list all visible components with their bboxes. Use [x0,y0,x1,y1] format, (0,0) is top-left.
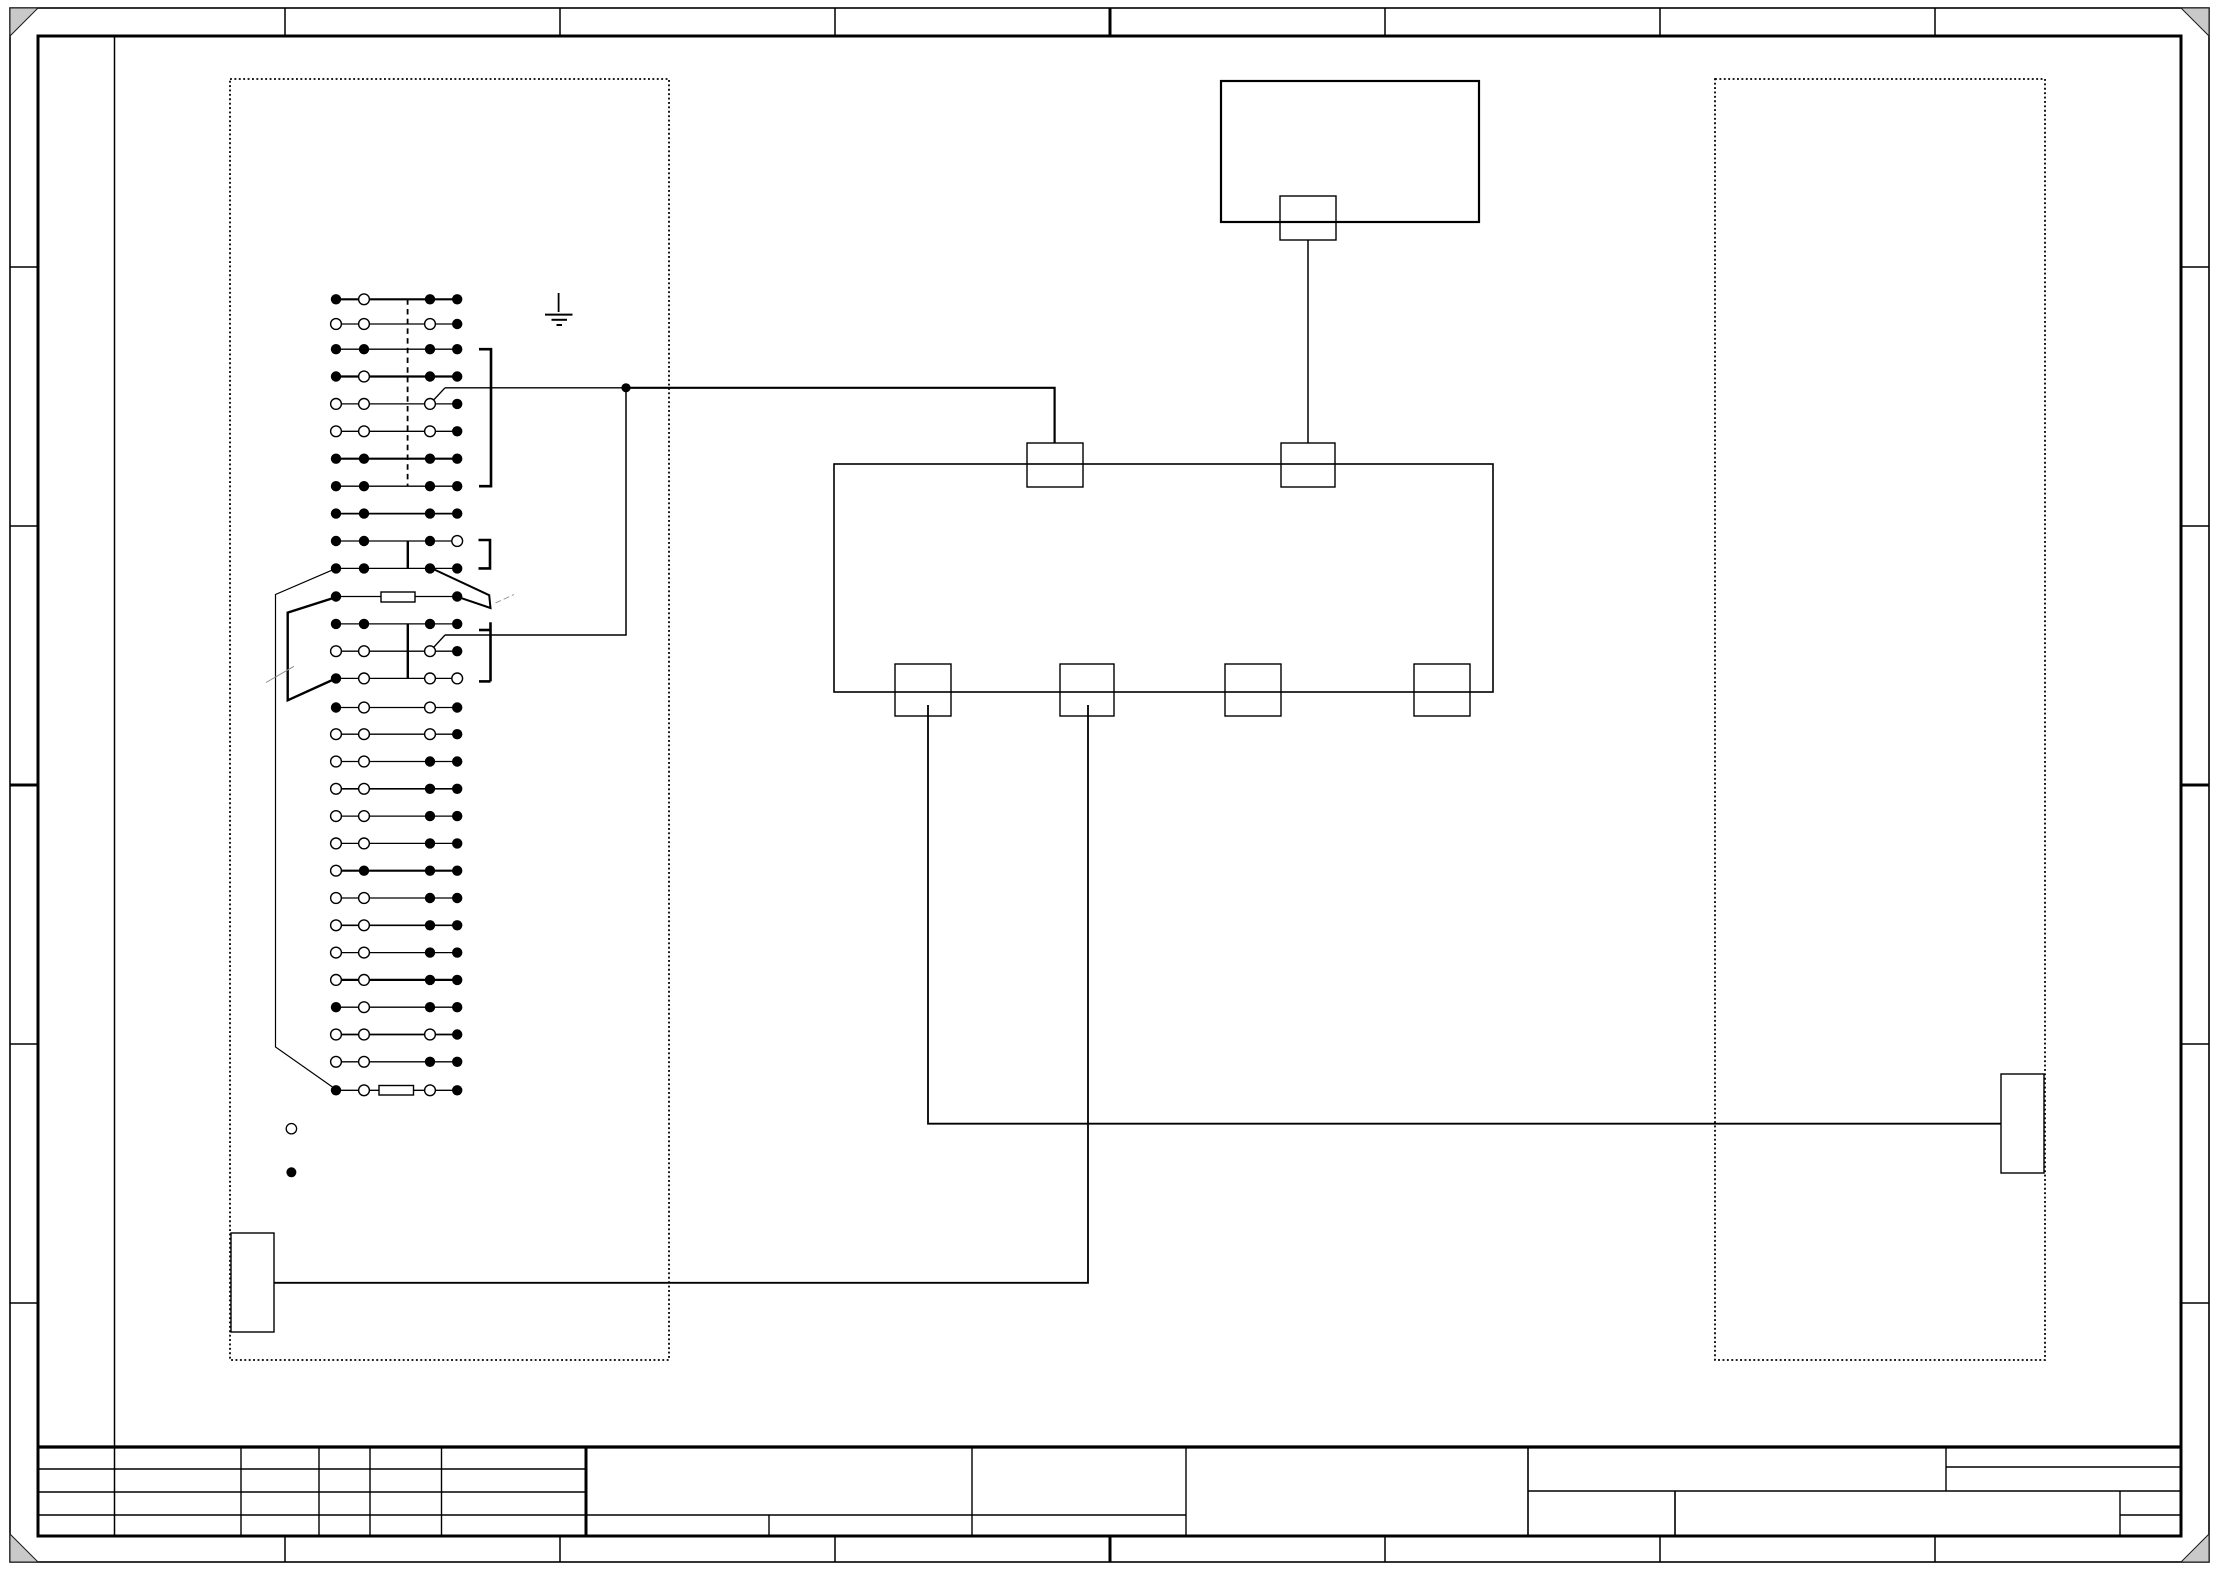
wire U2 to U1 [1307,240,1309,443]
title block column x=586 [585,1447,588,1536]
switch S1 arm [434,388,445,400]
wire connector X4 to X9 [274,705,1088,1283]
terminal row 9 [336,513,457,515]
terminal row 10 [336,540,457,542]
cable wing (right) [432,568,491,608]
terminal row 25 [336,952,457,954]
zone tick bottom x=285 [284,1536,286,1562]
wire node N1 to connector X1 [626,388,1055,443]
zone tick right y=1303 [2181,1302,2209,1304]
zone tick top x=835 [834,8,836,36]
title block column x=1528 [1527,1447,1529,1536]
title block bottom-row divider [768,1515,770,1536]
group bracket B1 [479,349,491,486]
switch S2 arm [434,635,445,647]
terminal row 1 [336,298,457,300]
title block row line 3 [38,1514,1186,1516]
corner mark bottom-right [2181,1534,2209,1562]
title block sheet row [2120,1514,2181,1516]
zone tick right y=1044 [2181,1043,2209,1045]
zone tick top x=560 [559,8,561,36]
terminal row 11 [336,567,457,569]
terminal row 15 [336,677,457,679]
zone tick top x=285 [284,8,286,36]
terminal row 3 [336,348,457,350]
enclosure (left cabinet, dotted) [230,79,669,1360]
zone tick right y=785 [2181,784,2209,787]
zone tick top x=1935 [1934,8,1936,36]
connector X6 on U1 bottom 3 [1225,664,1281,716]
title block row line 1 [38,1468,586,1470]
junction node N1 [621,383,630,392]
group bracket B2 [479,540,491,568]
title block column x=972 [971,1447,973,1536]
connector X8 (right cabinet) [2001,1074,2044,1173]
dashed partition line (terminal group A) [407,299,409,486]
title block column x=370 [369,1447,371,1536]
terminal row 26 [336,979,457,981]
corner mark top-left [10,8,38,36]
corner mark top-right [2181,8,2209,36]
title block row line 2 [38,1491,586,1493]
corner mark bottom-left [10,1534,38,1562]
title block revision divider [1945,1447,1947,1491]
terminal row 30 [336,1089,379,1091]
terminal row 6 [336,430,457,432]
terminal row 8 [336,485,457,487]
zone tick left y=785 [10,784,38,787]
link bar L2 [407,624,409,679]
zone tick right y=526 [2181,525,2209,527]
title block column x=1186 [1185,1447,1187,1536]
link bar L1 [407,541,409,568]
zone tick left y=1303 [10,1302,38,1304]
title block scale divider [1674,1491,1676,1536]
connector X5 on U2 [1280,196,1336,240]
terminal row 19 [336,788,457,790]
connector X2 on U1 top-right [1281,443,1335,487]
fuse F1 [381,592,415,602]
group bracket B3 [489,622,492,681]
fuse F2 [379,1086,414,1096]
zone tick bottom x=560 [559,1536,561,1562]
terminal row 2 [336,323,457,325]
zone tick bottom x=1385 [1384,1536,1386,1562]
terminal row 4 [336,375,457,377]
terminal row 21 [336,842,457,844]
title block top rule [38,1445,2181,1448]
cable slash left [266,666,294,682]
zone tick top x=1385 [1384,8,1386,36]
device box U1 (controller) [834,464,1493,692]
terminal row 16 [336,707,457,709]
wire connector X3 to X8 [928,705,2001,1124]
ground symbol [558,293,560,312]
terminal row 12 [336,596,381,598]
connector X4 on U1 bottom 2 [1060,664,1114,716]
terminal row 18 [336,761,457,763]
zone tick left y=1044 [10,1043,38,1045]
title block right rule [1528,1490,2181,1492]
title block column x=319 [318,1447,320,1536]
zone tick top x=1660 [1659,8,1661,36]
zone tick right y=267 [2181,266,2209,268]
cable bracket (outer) [276,568,337,1089]
frame column divider [114,36,116,1536]
wire node N1 to switch S2 [445,388,626,635]
cable bracket (inner) [288,597,337,700]
zone tick bottom x=835 [834,1536,836,1562]
terminal row 28 [336,1034,457,1036]
terminal row 5 [336,403,457,405]
terminal row 14 [336,650,457,652]
terminal row 17 [336,733,457,735]
terminal row 23 [336,897,457,899]
zone tick top x=1110 [1109,8,1112,36]
zone tick bottom x=1110 [1109,1536,1112,1562]
terminal row 27 [336,1006,457,1008]
device box U2 (top) [1221,81,1479,222]
wire switch S1 to node N1 [445,387,626,389]
spare terminal (open) [286,1124,296,1134]
spare terminal (filled) [286,1167,296,1177]
terminal row 24 [336,924,457,926]
title block sheet divider [2119,1491,2121,1536]
connector X7 on U1 bottom 4 [1414,664,1470,716]
terminal row 13 [336,623,457,625]
zone tick bottom x=1935 [1934,1536,1936,1562]
title block column x=441.5 [441,1447,443,1536]
zone tick left y=526 [10,525,38,527]
title block revision row [1946,1466,2181,1468]
terminal row 29 [336,1061,457,1063]
terminal row 20 [336,815,457,817]
title block column x=241 [240,1447,242,1536]
enclosure (right cabinet, dotted) [1715,79,2045,1360]
terminal row 22 [336,870,457,872]
zone tick left y=267 [10,266,38,268]
connector X3 on U1 bottom 1 [895,664,951,716]
zone tick bottom x=1660 [1659,1536,1661,1562]
cable slash right [496,595,515,604]
connector X1 on U1 top-left [1027,443,1083,487]
connector X9 (left cabinet) [231,1233,274,1332]
terminal row 7 [336,458,457,460]
